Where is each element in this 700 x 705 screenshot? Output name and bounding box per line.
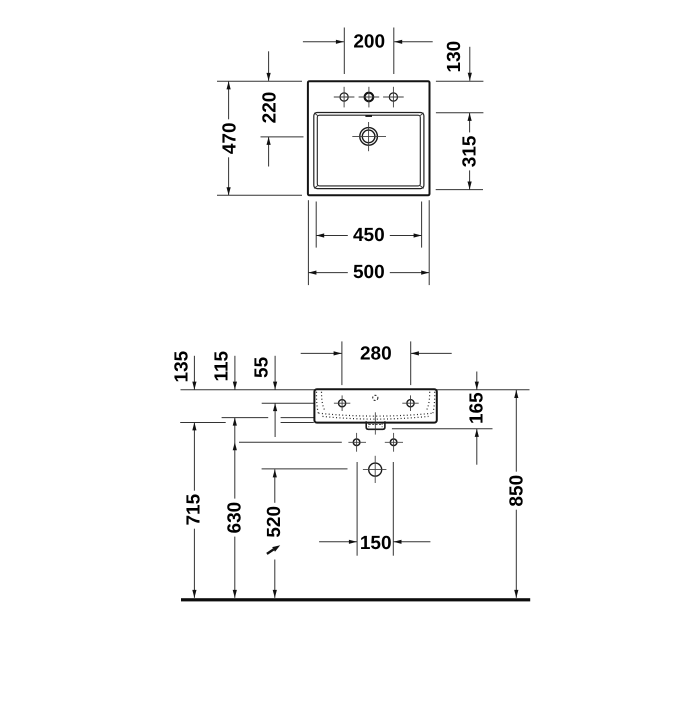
drain tailpiece	[366, 421, 385, 429]
pre-punched hole (dashed)	[373, 395, 378, 400]
extension line: bolt height	[239, 441, 342, 443]
svg-text:130: 130	[444, 41, 465, 73]
dimension 630	[234, 418, 236, 598]
extension line: 150 right vertical	[392, 462, 394, 556]
bowl stipple bottom lower row	[323, 416, 429, 419]
bowl stipple left inner	[322, 392, 326, 412]
dimension 500	[308, 272, 429, 274]
extension line: faucet hole right vertical	[393, 28, 395, 75]
bowl stipple right outer	[433, 392, 435, 414]
dimension 130	[469, 47, 471, 81]
fixing bolt right	[390, 439, 397, 446]
dimension 165	[476, 372, 478, 390]
centre line	[374, 412, 376, 434]
svg-text:450: 450	[353, 225, 385, 246]
dimension 150	[319, 541, 357, 543]
washbasin outer rim (plan)	[308, 81, 430, 195]
svg-text:715: 715	[184, 493, 205, 525]
extension line: basin left vertical below	[315, 202, 317, 248]
extension line: basin top edge full width	[181, 389, 530, 391]
dimension 715	[193, 422, 195, 598]
dimension 470	[228, 81, 230, 195]
extension line: sink bottom edge left	[217, 194, 302, 196]
bowl stipple right inner	[426, 392, 430, 412]
dimension 520	[274, 469, 276, 504]
extension line: drain centre left	[261, 136, 304, 138]
drain crosshair (plan)	[352, 135, 386, 137]
extension line: mounting hole right vertical	[410, 341, 412, 385]
trap circle	[369, 463, 382, 476]
basin rim inner line (plan)	[317, 115, 420, 186]
bowl stipple left outer	[316, 392, 318, 414]
extension line: basin inner bottom right	[436, 189, 483, 191]
fixing bolt left	[353, 439, 360, 446]
dimension 220	[268, 51, 270, 81]
extension line: basin bottom height	[180, 422, 226, 424]
svg-text:500: 500	[353, 262, 385, 283]
svg-text:630: 630	[225, 502, 246, 534]
svg-text:165: 165	[467, 392, 488, 424]
rim corner joins	[314, 113, 318, 116]
svg-text:220: 220	[259, 92, 280, 124]
dimension 450	[316, 235, 421, 237]
faucet hole left	[340, 93, 348, 101]
drain inner circle (plan)	[362, 130, 375, 143]
drain outer circle (plan)	[360, 128, 378, 146]
bowl stipple bottom upper row	[319, 413, 433, 416]
mounting hole right (front)	[407, 400, 414, 407]
dimension 850	[515, 390, 517, 598]
extension line: 150 left vertical	[356, 462, 358, 556]
extension line: mounting hole height	[262, 402, 314, 404]
dimension 135 arrow	[193, 356, 195, 390]
svg-text:520: 520	[264, 506, 285, 538]
dimension 55 arrows	[274, 356, 276, 390]
extension line: bowl break height	[222, 417, 269, 419]
extension line: trap height	[262, 468, 348, 470]
dimension 280	[301, 352, 342, 354]
dimension 200	[303, 41, 344, 43]
faucet hole centre	[365, 93, 374, 102]
svg-text:55: 55	[251, 356, 272, 378]
svg-text:850: 850	[507, 475, 528, 507]
extension line: sink top edge left	[217, 80, 302, 82]
washbasin body (front)	[314, 389, 436, 422]
extension line: sink left vertical below	[307, 200, 309, 285]
extension line: basin inner top right	[436, 112, 484, 114]
basin rim outer line (plan)	[314, 113, 424, 189]
svg-text:150: 150	[360, 533, 392, 554]
extension line: basin underside right	[392, 428, 493, 430]
tailpiece hidden lines	[368, 423, 370, 427]
svg-text:280: 280	[360, 344, 392, 365]
extension line: faucet hole left vertical	[343, 28, 345, 75]
overflow slot mark	[365, 115, 372, 117]
floor line	[181, 598, 530, 601]
dimension 115 arrow	[234, 356, 236, 390]
extension line: sink right vertical below	[428, 200, 430, 285]
faucet hole right	[389, 93, 397, 101]
extension line: mounting hole left vertical	[341, 341, 343, 385]
svg-text:135: 135	[171, 350, 192, 382]
svg-text:470: 470	[220, 122, 241, 154]
svg-text:200: 200	[353, 31, 385, 52]
extension line: basin right vertical below	[421, 202, 423, 248]
extension line: sink top edge right	[436, 80, 484, 82]
svg-text:315: 315	[460, 135, 481, 167]
svg-text:115: 115	[212, 350, 233, 381]
slope arrow	[267, 549, 274, 554]
mounting hole left (front)	[339, 400, 346, 407]
dimension 315	[469, 113, 471, 190]
